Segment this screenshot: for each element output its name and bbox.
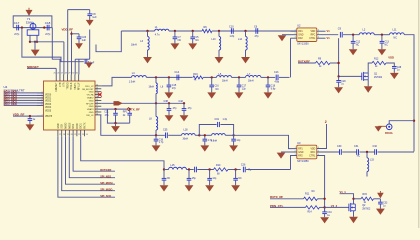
svg-text:DIO0: DIO0 xyxy=(77,123,79,129)
svg-text:1uF: 1uF xyxy=(82,39,87,42)
svg-text:4.7p: 4.7p xyxy=(208,140,213,142)
svg-text:VDD2: VDD2 xyxy=(45,101,52,103)
svg-text:SPI_SCK: SPI_SCK xyxy=(100,194,111,198)
svg-text:TPCLK: TPCLK xyxy=(71,82,73,90)
svg-text:CTRL: CTRL xyxy=(309,38,316,40)
svg-text:PA_BOOST: PA_BOOST xyxy=(82,88,94,91)
svg-text:C10: C10 xyxy=(229,25,234,28)
svg-text:17p: 17p xyxy=(172,87,177,90)
svg-text:R12: R12 xyxy=(374,57,379,60)
svg-text:27p: 27p xyxy=(45,32,50,36)
svg-text:NC: NC xyxy=(216,89,220,91)
svg-text:C35: C35 xyxy=(163,129,168,132)
svg-text:19: 19 xyxy=(96,99,98,101)
svg-text:18: 18 xyxy=(63,134,65,136)
svg-text:18nH: 18nH xyxy=(149,87,155,89)
svg-text:R15: R15 xyxy=(363,193,368,196)
svg-text:RFI_LF: RFI_LF xyxy=(86,115,94,117)
svg-text:MCU_DIO0: MCU_DIO0 xyxy=(4,102,18,106)
svg-text:17: 17 xyxy=(59,134,61,136)
svg-text:21: 21 xyxy=(96,93,98,95)
svg-text:RFI_HF: RFI_HF xyxy=(86,103,94,105)
svg-text:RF1: RF1 xyxy=(298,31,303,33)
svg-text:1.7p: 1.7p xyxy=(159,142,164,144)
svg-text:NC: NC xyxy=(195,39,199,42)
svg-text:C16: C16 xyxy=(215,85,220,87)
svg-text:L14: L14 xyxy=(238,38,243,41)
svg-text:31: 31 xyxy=(76,73,78,75)
svg-text:R10: R10 xyxy=(216,164,221,167)
svg-text:VDD0: VDD0 xyxy=(45,94,52,96)
svg-text:U3: U3 xyxy=(297,141,301,145)
svg-text:RF2: RF2 xyxy=(298,38,303,40)
svg-text:C26: C26 xyxy=(241,163,246,166)
svg-text:1uF: 1uF xyxy=(90,62,95,65)
svg-text:VDD5: VDD5 xyxy=(45,110,52,112)
svg-text:L18: L18 xyxy=(184,129,189,132)
svg-text:RF2: RF2 xyxy=(298,156,303,158)
svg-text:R16: R16 xyxy=(193,73,198,76)
svg-text:18nH: 18nH xyxy=(222,81,228,83)
svg-text:R14: R14 xyxy=(308,212,313,214)
svg-text:NC: NC xyxy=(385,44,389,47)
svg-text:23: 23 xyxy=(96,87,98,89)
svg-text:GND: GND xyxy=(298,152,303,154)
svg-text:23: 23 xyxy=(82,134,84,136)
svg-text:TPDIO: TPDIO xyxy=(67,82,69,89)
svg-text:R11: R11 xyxy=(305,193,310,196)
svg-text:15: 15 xyxy=(96,111,98,113)
svg-text:18: 18 xyxy=(96,102,98,104)
svg-text:RXTX/RF: RXTX/RF xyxy=(100,168,112,172)
svg-text:4.7n: 4.7n xyxy=(155,34,160,37)
svg-text:V1_1: V1_1 xyxy=(340,190,347,194)
svg-text:VDD: VDD xyxy=(388,56,394,60)
svg-text:C32: C32 xyxy=(373,145,378,148)
svg-text:XTA: XTA xyxy=(63,82,66,87)
svg-text:DIO1: DIO1 xyxy=(81,123,83,129)
svg-text:C19: C19 xyxy=(215,118,220,121)
svg-text:L15: L15 xyxy=(171,164,176,167)
svg-text:RFC: RFC xyxy=(311,35,316,37)
svg-text:C28: C28 xyxy=(397,67,402,69)
svg-text:27p: 27p xyxy=(14,32,19,36)
svg-text:28: 28 xyxy=(65,73,67,75)
svg-text:SCK: SCK xyxy=(62,123,64,128)
svg-text:2: 2 xyxy=(325,120,327,124)
svg-text:1uF: 1uF xyxy=(92,16,97,19)
svg-text:NC: NC xyxy=(394,37,398,40)
svg-text:22: 22 xyxy=(96,90,98,92)
svg-text:36nH: 36nH xyxy=(183,139,189,141)
svg-text:1.8p: 1.8p xyxy=(230,35,235,38)
svg-text:GND: GND xyxy=(58,123,60,128)
svg-text:VR_PA: VR_PA xyxy=(87,94,94,97)
svg-text:C18: C18 xyxy=(45,21,51,25)
svg-text:NC: NC xyxy=(357,155,361,157)
svg-text:CTRL: CTRL xyxy=(309,156,316,158)
svg-text:SKY13350: SKY13350 xyxy=(297,43,309,46)
svg-text:VBAT3: VBAT3 xyxy=(87,108,94,111)
svg-text:16: 16 xyxy=(96,108,98,110)
svg-text:VBAT5: VBAT5 xyxy=(45,115,53,118)
svg-text:4.8p: 4.8p xyxy=(275,82,280,84)
svg-text:MOSI: MOSI xyxy=(69,122,71,128)
svg-text:RP1: RP1 xyxy=(123,112,128,114)
svg-text:RXTX: RXTX xyxy=(85,122,87,129)
svg-text:C18: C18 xyxy=(271,85,276,87)
svg-text:C30: C30 xyxy=(337,145,342,148)
svg-text:RF1: RF1 xyxy=(298,149,303,151)
svg-text:VDD3: VDD3 xyxy=(45,104,52,106)
svg-text:22: 22 xyxy=(78,134,80,136)
svg-text:1.3p: 1.3p xyxy=(223,119,228,121)
svg-text:21: 21 xyxy=(74,134,76,136)
svg-text:24: 24 xyxy=(86,134,88,136)
svg-text:25: 25 xyxy=(53,73,55,75)
svg-text:C14: C14 xyxy=(175,71,180,74)
svg-text:MISO: MISO xyxy=(66,123,68,129)
svg-text:SPI_MISO: SPI_MISO xyxy=(100,187,112,191)
svg-text:C21: C21 xyxy=(104,112,109,114)
svg-text:NC: NC xyxy=(178,39,182,42)
svg-text:32MHz: 32MHz xyxy=(26,20,35,24)
svg-text:L11: L11 xyxy=(393,28,398,31)
svg-text:NC: NC xyxy=(312,191,316,193)
svg-text:V1: V1 xyxy=(327,36,331,40)
svg-text:26: 26 xyxy=(57,73,59,75)
svg-text:C38: C38 xyxy=(164,100,169,103)
svg-text:VDD4: VDD4 xyxy=(45,107,52,109)
svg-text:RFI_LF: RFI_LF xyxy=(79,82,81,90)
svg-text:XRESET: XRESET xyxy=(56,82,58,92)
svg-text:VBAT2: VBAT2 xyxy=(87,97,94,100)
svg-text:RFO_LP: RFO_LP xyxy=(85,86,94,88)
svg-text:SPI_NSS: SPI_NSS xyxy=(100,174,111,178)
svg-text:18nH: 18nH xyxy=(248,81,254,83)
svg-text:C36: C36 xyxy=(159,139,164,141)
svg-text:C17: C17 xyxy=(242,85,247,87)
svg-text:1: 1 xyxy=(295,147,296,149)
svg-text:RFC: RFC xyxy=(311,152,316,154)
svg-text:C34: C34 xyxy=(327,212,332,214)
svg-text:V1: V1 xyxy=(327,29,331,33)
svg-text:2N7002: 2N7002 xyxy=(374,77,383,79)
svg-text:NC: NC xyxy=(167,178,171,180)
svg-text:30: 30 xyxy=(72,73,74,75)
svg-text:SPI_MOSI: SPI_MOSI xyxy=(100,181,113,185)
svg-text:NC: NC xyxy=(356,44,360,47)
svg-text:RXTX/RF: RXTX/RF xyxy=(298,59,310,63)
svg-text:17: 17 xyxy=(96,105,98,107)
svg-text:C42: C42 xyxy=(179,100,184,103)
svg-text:18nH: 18nH xyxy=(131,44,137,47)
svg-text:VDD: VDD xyxy=(310,31,315,33)
svg-text:C29: C29 xyxy=(341,81,346,83)
svg-text:NC: NC xyxy=(238,178,242,180)
svg-text:C31: C31 xyxy=(354,145,359,148)
svg-text:47p: 47p xyxy=(255,35,260,38)
svg-text:GND: GND xyxy=(89,106,94,108)
svg-text:19: 19 xyxy=(67,134,69,136)
svg-text:SKY13350: SKY13350 xyxy=(297,160,309,163)
svg-text:VBAT1: VBAT1 xyxy=(74,82,77,90)
svg-text:GND: GND xyxy=(89,92,94,94)
svg-text:20: 20 xyxy=(71,134,73,136)
svg-text:14: 14 xyxy=(96,113,98,115)
svg-text:2N7002: 2N7002 xyxy=(362,208,371,210)
svg-text:24: 24 xyxy=(96,84,98,86)
svg-text:6.8p: 6.8p xyxy=(271,88,276,90)
svg-text:1.5nH: 1.5nH xyxy=(129,81,136,84)
svg-text:C33: C33 xyxy=(383,203,388,205)
svg-text:U2: U2 xyxy=(297,24,301,28)
svg-text:RXTX_RF: RXTX_RF xyxy=(270,195,283,199)
svg-text:L13: L13 xyxy=(212,38,217,41)
svg-text:NSS: NSS xyxy=(73,123,75,128)
svg-text:VDD1: VDD1 xyxy=(45,98,52,100)
svg-text:FD04A: FD04A xyxy=(385,132,393,135)
svg-text:GND: GND xyxy=(89,100,94,102)
svg-text:XTB: XTB xyxy=(60,82,62,87)
svg-text:GND: GND xyxy=(89,112,94,114)
svg-text:C13: C13 xyxy=(274,71,279,74)
svg-text:PDN_CTL: PDN_CTL xyxy=(270,204,284,208)
svg-text:29: 29 xyxy=(68,73,70,75)
svg-text:VDD: VDD xyxy=(310,149,315,151)
svg-text:27: 27 xyxy=(61,73,63,75)
svg-text:C17: C17 xyxy=(14,21,20,25)
svg-text:GND: GND xyxy=(298,35,303,37)
svg-text:TX_RF: TX_RF xyxy=(131,107,140,111)
